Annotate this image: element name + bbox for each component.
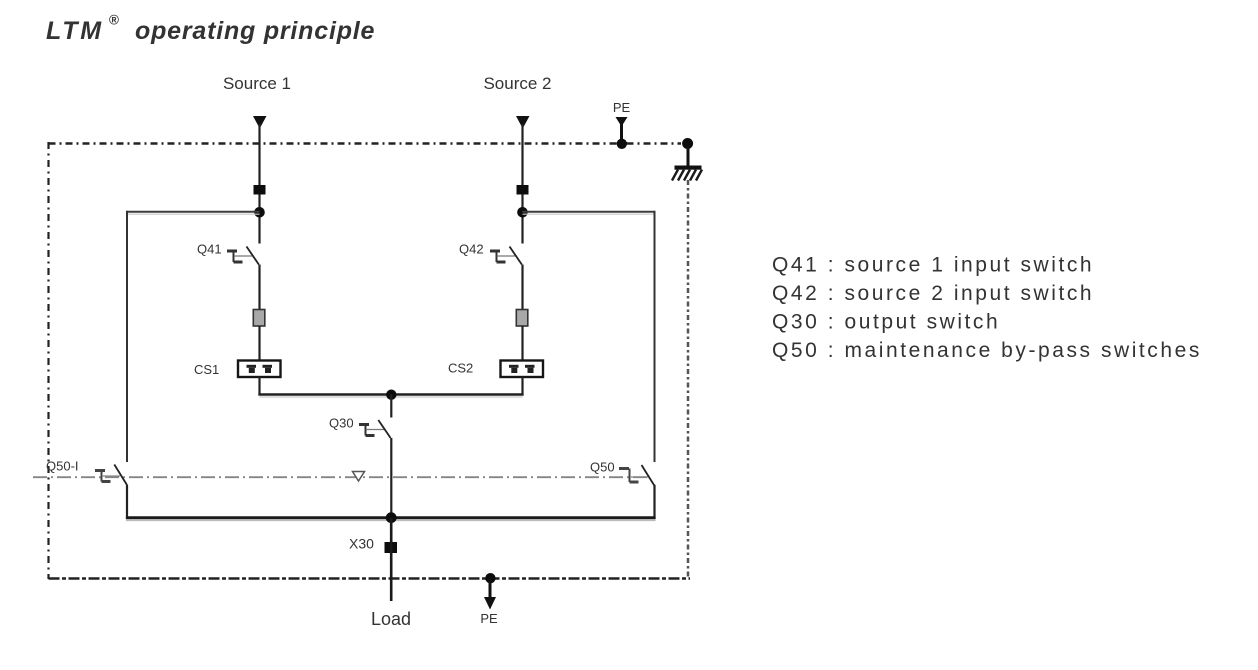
- wire Q30 lower: [390, 438, 392, 519]
- svg-text:Q50 : maintenance by-pass swit: Q50 : maintenance by-pass switches: [772, 339, 1202, 362]
- wire source 2 drop: [521, 124, 523, 244]
- legend: [772, 254, 1202, 363]
- fuse F1: [253, 310, 264, 327]
- wire load drop: [390, 518, 393, 601]
- node bottom center: [386, 512, 397, 523]
- switch Q30: [359, 420, 391, 438]
- enclosure border right: [687, 180, 690, 578]
- switch Q42: [490, 247, 522, 265]
- wire Q42 to fuse F2: [521, 265, 523, 311]
- svg-text:operating principle: operating principle: [135, 17, 375, 45]
- svg-text:PE: PE: [480, 611, 498, 626]
- source 2 arrow: [516, 116, 530, 129]
- box CS1: [238, 361, 281, 378]
- switch Q50-I: [95, 465, 127, 486]
- junction square S2: [517, 185, 529, 195]
- wire upper bus: [258, 395, 523, 398]
- node S2: [517, 207, 528, 218]
- marker triangle on maintenance line: [353, 472, 365, 482]
- svg-text:Source 1: Source 1: [223, 74, 291, 93]
- node corner ground: [682, 138, 693, 149]
- PE top arrow: [616, 117, 628, 141]
- svg-text:Q42: Q42: [459, 242, 484, 257]
- switch Q41: [227, 247, 259, 265]
- enclosure border top: [49, 142, 682, 144]
- wire F2 to CS2: [521, 326, 523, 362]
- wire bottom bus: [126, 516, 656, 519]
- ground earth symbol: [672, 146, 702, 181]
- fuse F2: [516, 310, 528, 327]
- svg-text:Q50-I: Q50-I: [46, 459, 79, 474]
- wire S2 node to right branch: [523, 212, 655, 214]
- wire Q30 upper: [390, 395, 392, 418]
- node PE bottom: [485, 573, 495, 583]
- node S1: [254, 207, 265, 218]
- terminal X30: [385, 542, 398, 553]
- wire source 1 drop: [258, 124, 260, 244]
- svg-text:CS1: CS1: [194, 362, 219, 377]
- wire S1 node to left branch: [127, 212, 260, 214]
- svg-text:Q30: Q30: [329, 416, 354, 431]
- box CS2: [501, 361, 544, 378]
- enclosure border left: [47, 142, 49, 579]
- enclosure border bottom: [49, 577, 691, 579]
- wire left branch vertical: [126, 211, 128, 462]
- wire Q41 to fuse F1: [258, 265, 260, 311]
- svg-text:Load: Load: [371, 609, 411, 629]
- maintenance by-pass dash-dot line: [33, 476, 649, 478]
- wire F1 to CS1: [258, 326, 260, 362]
- svg-text:Q41: Q41: [197, 242, 222, 257]
- svg-text:Q50: Q50: [590, 460, 615, 475]
- svg-text:Source 2: Source 2: [483, 74, 551, 93]
- wire right branch vertical: [654, 211, 656, 462]
- svg-text:Q42 : source 2 input switch: Q42 : source 2 input switch: [772, 282, 1094, 305]
- svg-text:®: ®: [109, 13, 119, 28]
- PE bottom arrow: [484, 578, 496, 610]
- node bus center: [386, 390, 396, 400]
- svg-text:Q41 : source 1 input switch: Q41 : source 1 input switch: [772, 254, 1094, 277]
- wire CS1 to bus: [258, 377, 260, 396]
- svg-text:X30: X30: [349, 536, 374, 552]
- title LTM operating principle: [46, 13, 375, 46]
- svg-text:Q30 : output switch: Q30 : output switch: [772, 311, 1000, 334]
- source 1 arrow: [253, 116, 267, 129]
- bottom bus grey shadow: [126, 519, 656, 521]
- wire CS2 to bus: [521, 377, 523, 396]
- node PE top: [617, 139, 627, 149]
- svg-text:CS2: CS2: [448, 361, 473, 376]
- wire left branch lower: [126, 485, 128, 519]
- wire right branch lower: [653, 485, 655, 519]
- switch Q50: [619, 465, 654, 486]
- svg-text:PE: PE: [613, 100, 631, 115]
- svg-text:LTM: LTM: [46, 17, 104, 45]
- junction square S1: [254, 185, 266, 195]
